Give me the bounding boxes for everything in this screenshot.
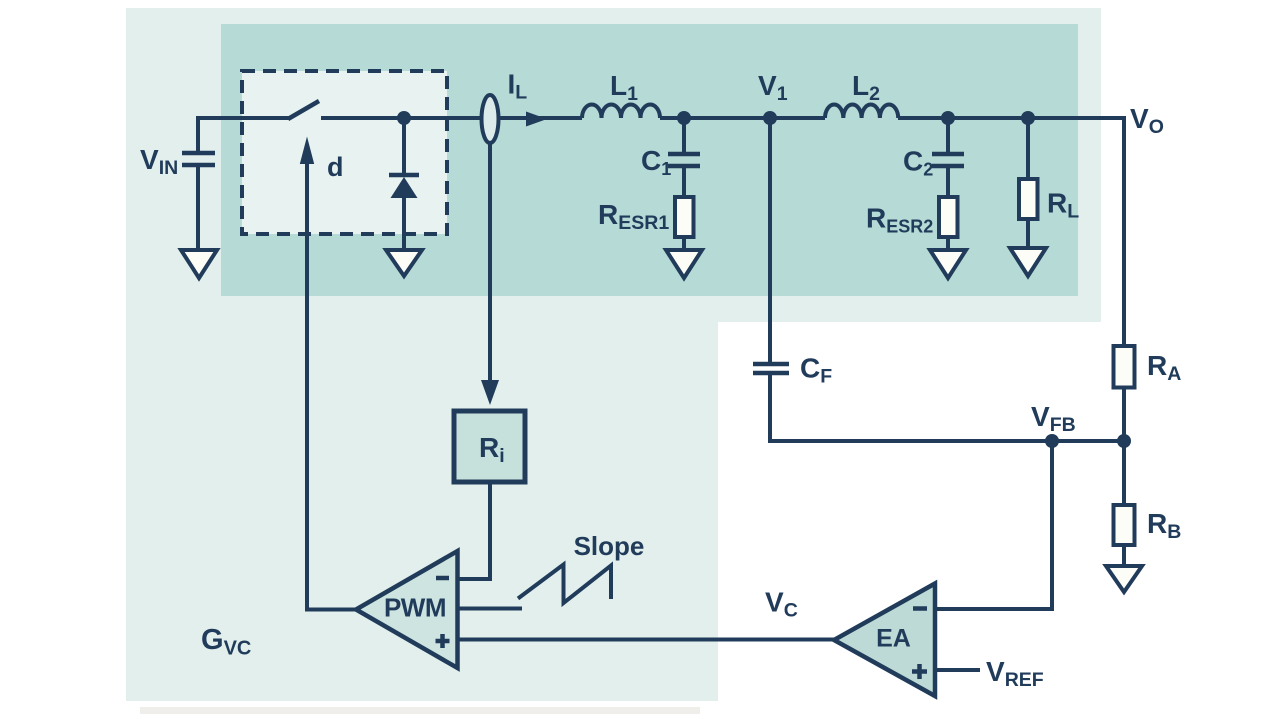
comparator PWM xyxy=(356,551,458,668)
resistor Ri block xyxy=(454,411,525,482)
wire RESR1 to ground xyxy=(682,237,686,250)
wire C1 to RESR1 xyxy=(682,168,686,197)
diode D1 body xyxy=(391,177,418,198)
wire switch to inductor L1 xyxy=(321,116,582,120)
PWM plus sign xyxy=(436,634,450,648)
resistor RA xyxy=(1114,346,1135,388)
op-amp EA (error amplifier) xyxy=(834,584,935,697)
svg-text:Slope: Slope xyxy=(574,531,645,561)
wire V1 down to CF xyxy=(768,118,772,362)
wire RL branch xyxy=(1026,118,1030,179)
resistor RB xyxy=(1114,505,1135,545)
resistor RESR1 xyxy=(675,197,694,237)
EA minus sign xyxy=(913,606,927,611)
wire VFB to EA minus input xyxy=(935,441,1052,609)
bottom shadow strip xyxy=(140,707,700,714)
svg-text:d: d xyxy=(327,152,344,182)
wire VIN cap to ground xyxy=(196,167,200,250)
ground (diode) xyxy=(386,250,422,276)
node RL junction xyxy=(1021,111,1035,125)
wire C2 branch xyxy=(946,118,950,152)
wire RESR2 to ground xyxy=(946,237,950,250)
wire diode branch xyxy=(402,118,406,174)
ground (VIN) xyxy=(181,250,217,278)
PWM minus sign xyxy=(436,576,449,581)
wire L1 to L2 xyxy=(660,116,825,120)
wire EA plus input stub xyxy=(935,668,980,672)
svg-text:VFB: VFB xyxy=(1031,401,1076,436)
ground (RESR1) xyxy=(666,250,702,278)
switch SW blade xyxy=(288,101,319,119)
svg-text:VO: VO xyxy=(1130,103,1164,138)
wire VC (EA output to PWM plus) xyxy=(458,638,834,642)
wire diode to ground xyxy=(402,198,406,250)
power stage background region (inner teal) xyxy=(221,24,1078,296)
current sensor (IL probe) xyxy=(482,95,499,143)
wire CF to feedback rail xyxy=(770,375,1124,441)
capacitor C2 plates xyxy=(932,154,964,166)
wire RL to ground xyxy=(1026,219,1030,248)
svg-text:PWM: PWM xyxy=(384,593,446,623)
svg-text:VC: VC xyxy=(765,587,798,622)
wire Ri to PWM minus input xyxy=(458,482,490,579)
inductor L2 xyxy=(825,104,898,118)
wire sensor drop to Ri xyxy=(488,143,492,381)
EA plus sign xyxy=(912,664,927,679)
wire L2 to VO corner and down to RA xyxy=(898,118,1124,346)
wire divider junction to RB xyxy=(1122,441,1126,505)
slope compensation ramp waveform xyxy=(518,565,611,604)
svg-text:CF: CF xyxy=(800,353,832,388)
switch cell dashed box xyxy=(242,71,447,234)
arrowhead into Ri xyxy=(481,380,499,405)
node C1 junction xyxy=(677,111,691,125)
wire VIN cap to switch pivot xyxy=(198,118,289,153)
ground (RESR2) xyxy=(930,250,966,278)
node V1 junction xyxy=(763,111,777,125)
wire RA to divider junction xyxy=(1122,387,1126,441)
capacitor VIN plates xyxy=(182,153,215,165)
capacitor CF plates xyxy=(753,364,789,373)
node VFB junction xyxy=(1045,434,1059,448)
svg-text:RB: RB xyxy=(1147,508,1181,543)
diode D1 cathode bar xyxy=(389,173,419,178)
capacitor C1 plates xyxy=(668,154,700,166)
arrowhead duty d xyxy=(300,137,314,165)
ground (RB) xyxy=(1106,566,1142,592)
inductor L1 xyxy=(582,105,660,119)
resistor RL xyxy=(1019,179,1038,219)
svg-text:VREF: VREF xyxy=(986,656,1044,691)
node C2 junction xyxy=(941,111,955,125)
svg-text:RA: RA xyxy=(1147,350,1181,385)
wire PWM ramp input stub xyxy=(458,607,522,611)
node switch-diode junction xyxy=(397,111,411,125)
wire RB to ground xyxy=(1122,545,1126,566)
ground (RL) xyxy=(1010,248,1046,276)
IL flow arrow xyxy=(526,112,547,127)
wire C1 branch xyxy=(682,118,686,152)
wire C2 to RESR2 xyxy=(946,168,950,197)
svg-text:EA: EA xyxy=(876,625,911,653)
wire PWM output duty drive (up to switch) xyxy=(307,164,356,610)
resistor RESR2 xyxy=(939,197,958,237)
node/net region Gvc background (control loop, pale mint L-shape) xyxy=(126,8,1101,701)
node divider junction xyxy=(1117,434,1131,448)
